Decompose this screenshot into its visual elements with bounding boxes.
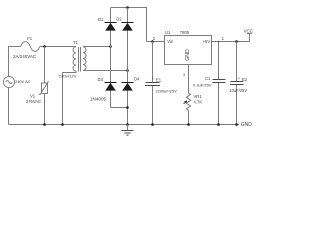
op-amp U1 7805 regulator box <box>165 36 212 65</box>
wire varistor branch lower <box>44 93 46 124</box>
svg-text:+: + <box>152 76 155 81</box>
node E2 bottom rail junction <box>235 123 238 126</box>
varistor V1 <box>39 81 49 94</box>
svg-text:10uF/25V: 10uF/25V <box>229 88 247 93</box>
svg-text:U1: U1 <box>165 30 171 35</box>
capacitor E2 <box>230 82 244 85</box>
svg-text:7805: 7805 <box>180 30 190 35</box>
svg-text:1: 1 <box>222 36 225 41</box>
svg-text:240V AC: 240V AC <box>15 79 31 84</box>
svg-text:2: 2 <box>153 36 156 41</box>
node C1 branch junction <box>218 41 220 43</box>
wire E2 upper lead <box>236 42 238 82</box>
svg-text:4.7K: 4.7K <box>194 99 203 104</box>
node E1 branch junction <box>151 40 154 43</box>
svg-text:2A/240VAC: 2A/240VAC <box>13 54 37 59</box>
wire D3 bottom to D4 column <box>111 107 128 109</box>
transformer T1 primary winding <box>73 47 76 71</box>
wire regulator ground pin <box>188 65 190 94</box>
wire secondary bottom lead crossover <box>83 70 128 72</box>
svg-text:GND: GND <box>185 49 191 61</box>
resistor VR1 zigzag <box>186 93 190 110</box>
svg-text:V1: V1 <box>30 94 36 99</box>
node D2 top rail junction <box>126 6 129 9</box>
svg-text:275VAC: 275VAC <box>26 99 41 104</box>
diode D2 <box>122 23 134 31</box>
node bridge bottom rail junction <box>126 123 129 126</box>
wire bridge top rail <box>111 8 147 42</box>
wire C1 upper lead <box>218 42 220 80</box>
svg-text:C1: C1 <box>205 76 211 81</box>
node primary bottom rail junction <box>61 123 64 126</box>
capacitor C1 <box>213 80 226 83</box>
transformer core <box>79 47 81 72</box>
svg-text:D1: D1 <box>98 17 104 22</box>
power VCC bar <box>247 33 252 35</box>
node C1 bottom rail junction <box>217 123 220 126</box>
wire varistor branch upper <box>44 47 46 84</box>
svg-text:E2: E2 <box>242 77 248 82</box>
wire bottom rail <box>9 124 240 126</box>
node VR1 bottom rail junction <box>187 123 190 126</box>
diode D1 <box>105 23 117 31</box>
AC source circle 240VAC <box>3 76 14 87</box>
wire bridge output to regulator input <box>147 41 165 43</box>
svg-text:D4: D4 <box>134 76 140 81</box>
wire AC source bottom left vertical <box>8 88 10 125</box>
svg-text:VCC: VCC <box>244 29 253 34</box>
wire right bridge column <box>127 8 129 125</box>
resistor VR1 wiper arrow <box>184 101 188 104</box>
wire AC source top left vertical <box>9 47 21 77</box>
wire E2 lower lead <box>236 85 238 125</box>
svg-text:VR1: VR1 <box>194 94 203 99</box>
svg-text:GND: GND <box>241 122 253 128</box>
fuse F1 <box>21 42 40 52</box>
node secondary bottom to right bridge column <box>126 69 129 72</box>
wire E1 upper lead <box>152 42 154 83</box>
svg-text:T1: T1 <box>73 40 79 45</box>
svg-text:0.3uF/25V: 0.3uF/25V <box>193 82 212 87</box>
svg-text:D3: D3 <box>98 77 104 82</box>
svg-text:Vin: Vin <box>167 39 174 44</box>
node secondary top to left bridge column <box>109 45 112 48</box>
svg-text:D2: D2 <box>116 16 122 21</box>
node D3/D4 bottom junction <box>126 106 129 109</box>
svg-text:+5V: +5V <box>203 39 211 44</box>
svg-text:240V/12V: 240V/12V <box>59 74 77 79</box>
wire fuse to transformer primary top <box>40 46 76 48</box>
diode D4 <box>122 83 134 91</box>
wire VR1 lower lead <box>188 110 190 124</box>
svg-text:1N4005: 1N4005 <box>90 96 107 101</box>
wire secondary top lead <box>83 46 111 48</box>
capacitor E1 <box>145 83 160 86</box>
node varistor bottom rail junction <box>43 123 46 126</box>
diode D3 <box>105 83 117 91</box>
wire primary bottom lead <box>63 71 77 124</box>
wire C1 lower lead <box>218 83 220 125</box>
node E1 bottom rail junction <box>151 123 154 126</box>
transformer T1 secondary winding <box>83 47 86 71</box>
wire VCC riser <box>249 34 251 42</box>
svg-text:2200uF/25V: 2200uF/25V <box>156 88 178 93</box>
node junction fuse/varistor <box>43 45 46 48</box>
wire left bridge column <box>110 8 112 108</box>
svg-text:F1: F1 <box>27 36 33 41</box>
wire E1 lower lead <box>152 86 154 125</box>
svg-text:3: 3 <box>183 73 185 77</box>
wire regulator output <box>212 41 250 43</box>
ground symbol <box>122 125 134 136</box>
node E2 branch junction <box>235 40 238 43</box>
svg-text:+: + <box>238 76 241 81</box>
svg-text:E1: E1 <box>156 77 162 82</box>
